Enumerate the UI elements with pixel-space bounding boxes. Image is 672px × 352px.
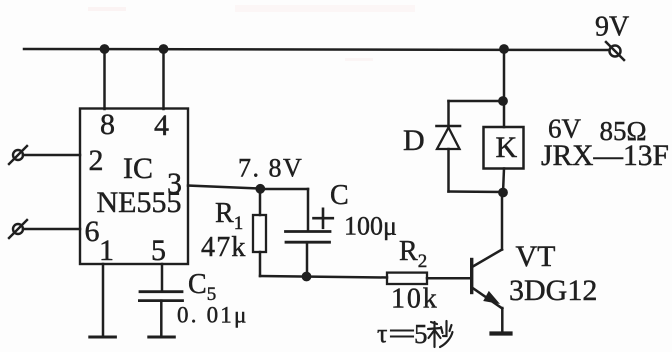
svg-text:4: 4 [154, 109, 169, 142]
svg-text:8: 8 [100, 108, 115, 141]
svg-text:6V: 6V [548, 114, 582, 144]
svg-text:0. 01μ: 0. 01μ [177, 303, 249, 328]
svg-text:3DG12: 3DG12 [509, 274, 597, 307]
svg-text:2: 2 [89, 144, 104, 177]
svg-text:7. 8V: 7. 8V [238, 154, 303, 183]
svg-text:85Ω: 85Ω [600, 116, 647, 146]
svg-text:τ: τ [377, 319, 387, 348]
svg-text:47k: 47k [201, 232, 247, 263]
svg-text:K: K [496, 131, 518, 164]
svg-text:1: 1 [99, 234, 114, 267]
svg-text:10k: 10k [391, 284, 439, 315]
svg-text:NE555: NE555 [97, 186, 182, 219]
svg-text:100μ: 100μ [344, 212, 397, 241]
svg-text:5: 5 [151, 234, 166, 267]
svg-text:VT: VT [516, 240, 556, 273]
svg-text:5: 5 [414, 319, 428, 349]
svg-text:D: D [403, 124, 425, 157]
svg-text:9V: 9V [595, 12, 629, 43]
svg-text:IC: IC [123, 152, 153, 185]
svg-text:6: 6 [85, 215, 100, 248]
svg-text:C: C [330, 180, 349, 211]
